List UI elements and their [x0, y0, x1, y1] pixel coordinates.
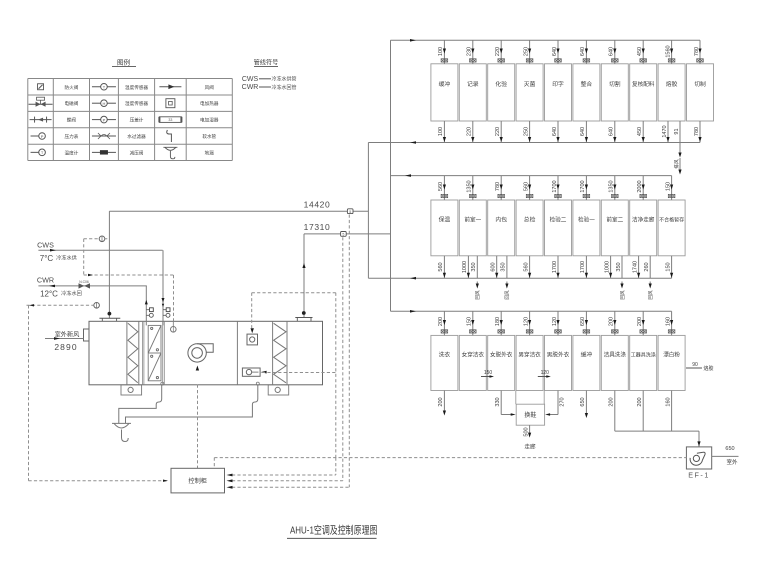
svg-text:记录: 记录 — [467, 80, 479, 88]
svg-text:14420: 14420 — [304, 200, 331, 210]
svg-text:电磁阀: 电磁阀 — [65, 100, 79, 107]
svg-text:250: 250 — [523, 127, 529, 136]
svg-text:560: 560 — [438, 182, 444, 191]
svg-text:120: 120 — [552, 317, 558, 326]
svg-text:蝶阀: 蝶阀 — [67, 117, 77, 124]
svg-text:不合格暂存: 不合格暂存 — [659, 216, 684, 223]
svg-text:温度计: 温度计 — [65, 149, 79, 156]
svg-text:切制: 切制 — [694, 80, 706, 88]
svg-text:CWR: CWR — [242, 84, 259, 91]
svg-text:缓冲: 缓冲 — [439, 80, 451, 88]
svg-text:CWR: CWR — [37, 276, 54, 285]
svg-text:烙胶: 烙胶 — [703, 365, 713, 372]
svg-text:350: 350 — [616, 262, 622, 271]
svg-text:前室二: 前室二 — [606, 215, 623, 223]
svg-text:N.C06: N.C06 — [79, 280, 89, 284]
svg-text:90: 90 — [692, 362, 698, 368]
svg-text:780: 780 — [694, 47, 700, 56]
svg-text:化验: 化验 — [495, 80, 507, 88]
svg-text:女脱外衣: 女脱外衣 — [490, 350, 513, 358]
svg-text:排风: 排风 — [673, 159, 680, 169]
svg-text:1700: 1700 — [552, 180, 558, 192]
svg-text:1700: 1700 — [552, 261, 558, 273]
svg-text:1560: 1560 — [665, 45, 671, 57]
svg-text:冷冻水供管: 冷冻水供管 — [271, 76, 296, 83]
svg-text:1350: 1350 — [467, 180, 473, 192]
svg-text:工器具洗涤: 工器具洗涤 — [631, 351, 656, 358]
svg-text:150: 150 — [665, 262, 671, 271]
svg-text:管线符号: 管线符号 — [254, 59, 279, 67]
svg-text:软水管: 软水管 — [202, 133, 216, 140]
svg-text:缓冲: 缓冲 — [581, 350, 593, 358]
svg-text:150: 150 — [467, 317, 473, 326]
svg-text:CWS: CWS — [37, 240, 54, 249]
svg-text:图例: 图例 — [117, 58, 130, 67]
svg-text:7°C: 7°C — [40, 254, 54, 263]
svg-text:P: P — [103, 117, 106, 122]
svg-text:120: 120 — [541, 370, 550, 376]
svg-text:洁净走廊: 洁净走廊 — [632, 215, 655, 223]
svg-text:湿度传感器: 湿度传感器 — [125, 100, 148, 107]
svg-text:整合: 整合 — [581, 80, 593, 88]
svg-text:换鞋: 换鞋 — [524, 411, 536, 419]
svg-text:检验二: 检验二 — [550, 215, 567, 223]
svg-text:450: 450 — [637, 127, 643, 136]
svg-text:100: 100 — [438, 47, 444, 56]
svg-text:1350: 1350 — [609, 180, 615, 192]
svg-text:560: 560 — [523, 262, 529, 271]
svg-text:650: 650 — [580, 397, 586, 406]
svg-text:减压阀: 减压阀 — [130, 149, 144, 156]
svg-text:漂白粉: 漂白粉 — [663, 350, 680, 358]
svg-text:200: 200 — [637, 317, 643, 326]
svg-text:1700: 1700 — [580, 180, 586, 192]
svg-text:1470: 1470 — [662, 125, 668, 137]
svg-text:电加热器: 电加热器 — [200, 100, 219, 107]
svg-text:女穿洁衣: 女穿洁衣 — [462, 350, 485, 358]
svg-text:230: 230 — [467, 47, 473, 56]
svg-text:2000: 2000 — [637, 180, 643, 192]
svg-text:120: 120 — [523, 317, 529, 326]
svg-text:室外: 室外 — [726, 458, 738, 466]
svg-text:450: 450 — [637, 47, 643, 56]
svg-text:780: 780 — [694, 127, 700, 136]
svg-text:640: 640 — [580, 47, 586, 56]
svg-text:330: 330 — [495, 397, 501, 406]
svg-text:160: 160 — [665, 397, 671, 406]
svg-text:CWS: CWS — [242, 76, 259, 83]
svg-text:内包: 内包 — [495, 215, 507, 223]
svg-text:150: 150 — [484, 370, 493, 376]
svg-text:保温: 保温 — [439, 215, 451, 223]
svg-text:640: 640 — [609, 127, 615, 136]
svg-text:220: 220 — [495, 47, 501, 56]
svg-text:200: 200 — [438, 397, 444, 406]
svg-text:电加湿器: 电加湿器 — [200, 117, 219, 124]
svg-text:600: 600 — [491, 262, 497, 271]
svg-text:切割: 切割 — [609, 80, 621, 88]
svg-text:200: 200 — [609, 317, 615, 326]
svg-text:冷冻水供: 冷冻水供 — [56, 253, 77, 261]
svg-text:350: 350 — [471, 262, 477, 271]
svg-text:5: 5 — [349, 210, 351, 214]
svg-text:250: 250 — [523, 47, 529, 56]
svg-text:前室一: 前室一 — [464, 215, 481, 223]
svg-text:640: 640 — [609, 47, 615, 56]
svg-text:220: 220 — [495, 127, 501, 136]
svg-text:33: 33 — [168, 118, 172, 122]
svg-text:EF-1: EF-1 — [688, 471, 710, 480]
svg-text:2890: 2890 — [54, 342, 77, 352]
svg-text:160: 160 — [665, 317, 671, 326]
svg-text:350: 350 — [501, 262, 507, 271]
svg-text:灭菌: 灭菌 — [524, 80, 536, 88]
svg-text:650: 650 — [725, 446, 734, 452]
svg-text:200: 200 — [438, 317, 444, 326]
svg-text:洁具洗涤: 洁具洗涤 — [604, 350, 627, 358]
svg-text:熔胶: 熔胶 — [666, 80, 678, 88]
svg-text:1740: 1740 — [632, 261, 638, 273]
svg-text:男脱外衣: 男脱外衣 — [547, 350, 570, 358]
svg-text:1000: 1000 — [604, 261, 610, 273]
svg-text:冷冻水回管: 冷冻水回管 — [271, 84, 296, 91]
svg-text:水过滤器: 水过滤器 — [127, 133, 146, 140]
svg-text:防火阀: 防火阀 — [65, 84, 79, 91]
svg-text:640: 640 — [552, 47, 558, 56]
svg-text:地漏: 地漏 — [205, 149, 215, 156]
svg-text:180: 180 — [495, 317, 501, 326]
svg-text:1700: 1700 — [580, 261, 586, 273]
svg-text:650: 650 — [580, 317, 586, 326]
svg-text:风阀: 风阀 — [205, 84, 215, 91]
svg-text:220: 220 — [467, 127, 473, 136]
svg-text:AHU-1空调及控制原理图: AHU-1空调及控制原理图 — [290, 524, 378, 537]
svg-text:印字: 印字 — [552, 80, 564, 88]
svg-text:洗衣: 洗衣 — [439, 350, 451, 358]
svg-text:压差计: 压差计 — [130, 117, 144, 124]
svg-text:总检: 总检 — [524, 215, 536, 223]
svg-text:走廊: 走廊 — [524, 443, 536, 451]
svg-text:1000: 1000 — [462, 261, 468, 273]
svg-text:复核配料: 复核配料 — [632, 80, 655, 88]
svg-text:17310: 17310 — [304, 222, 331, 232]
svg-text:检验一: 检验一 — [578, 215, 595, 223]
svg-text:100: 100 — [438, 127, 444, 136]
svg-text:270: 270 — [559, 397, 565, 406]
svg-text:260: 260 — [644, 262, 650, 271]
svg-text:12°C: 12°C — [40, 289, 58, 298]
svg-text:640: 640 — [552, 127, 558, 136]
svg-text:室外新风: 室外新风 — [55, 331, 80, 339]
svg-text:冷冻水回: 冷冻水回 — [61, 289, 82, 297]
svg-text:200: 200 — [609, 397, 615, 406]
svg-text:500: 500 — [523, 427, 529, 436]
svg-text:P: P — [41, 134, 44, 139]
svg-text:H: H — [103, 101, 106, 106]
svg-text:150: 150 — [665, 182, 671, 191]
svg-text:压力表: 压力表 — [65, 133, 79, 140]
svg-text:控制柜: 控制柜 — [188, 477, 207, 485]
svg-text:560: 560 — [438, 262, 444, 271]
svg-text:91: 91 — [674, 128, 680, 134]
svg-text:560: 560 — [523, 182, 529, 191]
svg-text:200: 200 — [637, 397, 643, 406]
svg-text:温度传感器: 温度传感器 — [125, 84, 148, 91]
svg-text:男穿洁衣: 男穿洁衣 — [518, 350, 541, 358]
svg-text:640: 640 — [580, 127, 586, 136]
svg-text:780: 780 — [495, 182, 501, 191]
svg-text:5: 5 — [342, 233, 344, 237]
